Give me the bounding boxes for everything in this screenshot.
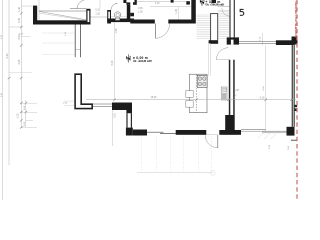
svg-text:1,40: 1,40: [17, 6, 21, 12]
dimension text left column: [5, 6, 26, 126]
svg-text:5,13: 5,13: [95, 8, 100, 11]
door arc porch: [77, 0, 87, 9]
level marker upper: [200, 0, 224, 7]
dimension line left outer: [8, 0, 10, 165]
door terrace arc: [205, 135, 218, 148]
dimension text porch top: [95, 8, 100, 15]
dimension line far left: [2, 0, 4, 200]
stove: [197, 75, 207, 87]
terrace L wall (hollow): [75, 74, 92, 108]
chimney piece C: [133, 0, 137, 5]
stair spine top black bar: [212, 0, 217, 3]
dimension connector left y72: [9, 72, 32, 74]
dimension tick group left: [8, 12, 27, 128]
wall junction block: [227, 37, 239, 44]
dimension vline right room: [265, 46, 267, 132]
wall room5 top bar right: [276, 40, 294, 45]
porch ramp diagonal: [39, 11, 86, 19]
hall guide vline: [177, 7, 179, 20]
stair door threshold: [217, 59, 229, 61]
sill hatch diagonals: [258, 133, 276, 140]
dimension line left inner: [20, 0, 22, 128]
wall living east double: [126, 113, 127, 127]
right edge dimension mark upper: [295, 105, 298, 107]
dimension vline living: [112, 110, 114, 146]
svg-text:1,20: 1,20: [95, 13, 100, 16]
svg-text:0,45: 0,45: [17, 17, 21, 23]
stair spine bottom cap: [209, 40, 218, 43]
terrace railing double line: [74, 25, 76, 58]
dimension connector top-left: [21, 5, 33, 7]
wall T pier: [225, 115, 235, 135]
window bottom (with jog): [241, 129, 266, 131]
svg-text:1,40: 1,40: [155, 2, 160, 5]
door terrace leaf: [217, 135, 219, 148]
top window line: [137, 1, 171, 3]
red boundary dashed line: [296, 0, 298, 200]
svg-text:1,15: 1,15: [16, 113, 20, 119]
svg-text:FRANCSEK UTCAI TELEKHATÁR: FRANCSEK UTCAI TELEKHATÁR: [294, 2, 297, 39]
svg-text:5,35: 5,35: [234, 89, 239, 92]
bathroom guide hline: [111, 16, 127, 18]
porch guide vline: [38, 0, 40, 20]
door hall leaf: [154, 24, 156, 39]
door terrace threshold: [206, 133, 218, 135]
extension lines bottom-left: [22, 103, 38, 105]
wall top-right corner: [292, 37, 298, 45]
wall hall bottom left piece: [130, 20, 155, 24]
L wall side extension lines: [64, 100, 74, 102]
main horizontal dimension line: [86, 99, 296, 101]
wall bathroom right: [127, 5, 131, 22]
dimension text hall: [115, 2, 178, 33]
right edge tick lower: [291, 139, 297, 141]
stair upper door arc: [222, 8, 230, 16]
sink counter: [221, 87, 227, 100]
level marker ground floor: [126, 54, 152, 63]
short hline under 0,45: [21, 35, 30, 37]
room label 5: [240, 9, 244, 15]
svg-text:3,01: 3,01: [113, 113, 116, 118]
chair B: [186, 101, 193, 108]
svg-text:15,26: 15,26: [151, 96, 158, 99]
porch guide vline2: [99, 0, 101, 9]
wall bottom bar B: [176, 130, 207, 135]
dimension texts center/right: [151, 86, 290, 151]
chair A: [186, 91, 193, 98]
wall bottom notch piece: [126, 128, 133, 136]
wall bathroom left: [107, 10, 111, 24]
wall bathroom bottom: [107, 19, 134, 23]
top jamb mark A: [171, 0, 174, 3]
terrace base line: [137, 172, 213, 174]
ticks on main hline: [113, 99, 293, 101]
wall porch bottom bar: [33, 20, 91, 24]
stair treads left flight: [197, 15, 211, 38]
wall porch right riser: [86, 9, 90, 25]
top jamb mark B: [186, 1, 190, 4]
door arc stair to kitchen: [216, 48, 228, 60]
porch opening line upper: [70, 8, 86, 10]
dimension vline room5: [261, 33, 263, 46]
wall bottom bar A: [133, 130, 147, 136]
svg-text:4,19: 4,19: [260, 97, 265, 100]
terrace end circle: [211, 171, 216, 176]
hall guide hline: [150, 6, 191, 8]
dimension connector mid-left: [9, 26, 23, 28]
wall stairwell right upper: [229, 0, 235, 37]
dimension line left small: [25, 100, 27, 127]
svg-text:5,40: 5,40: [5, 53, 9, 59]
chimney piece A: [123, 0, 126, 3]
wall kitchen west (double line): [229, 60, 231, 115]
wall living north block: [112, 103, 132, 114]
svg-text:0,45: 0,45: [1, 34, 3, 39]
tick 5,35: [234, 95, 237, 98]
door arc bathroom: [111, 3, 118, 10]
toilet: [114, 12, 120, 18]
terrace faint paving lines: [42, 33, 75, 55]
stair spine wall: [211, 14, 218, 44]
stair treads right flight: [218, 13, 230, 38]
dimension vline center: [114, 22, 116, 100]
chimney piece B: [126, 2, 130, 4]
window living north: [93, 103, 112, 105]
wall hall right: [191, 0, 196, 20]
door hall arc: [155, 24, 169, 39]
terrace dotted verticals: [142, 136, 212, 173]
svg-text:1,00: 1,00: [175, 9, 178, 14]
svg-text:Ük: +293,80 mBf: Ük: +293,80 mBf: [133, 60, 152, 63]
wall bottom bar C: [219, 130, 241, 135]
svg-text:2,45: 2,45: [17, 59, 21, 65]
window room5 top: [239, 41, 276, 43]
svg-text:1,36: 1,36: [138, 10, 143, 13]
kitchen island: [190, 74, 208, 113]
stair landing lines: [218, 5, 230, 7]
svg-text:5,40: 5,40: [110, 60, 114, 66]
svg-text:5,40: 5,40: [1, 92, 3, 97]
island dashed centerline: [196, 74, 198, 113]
svg-text:1,05: 1,05: [115, 28, 118, 33]
under-stair guide band: [208, 43, 210, 76]
wall east (double line): [292, 45, 293, 127]
passage line porch-bathroom: [91, 16, 108, 18]
porch opening line lower: [39, 10, 86, 12]
sliding door: [147, 131, 164, 133]
wall stub right of bathroom: [130, 13, 134, 16]
wall porch left bar: [33, 6, 37, 25]
wall bottom-right corner: [287, 127, 295, 136]
wall hall bottom right piece: [168, 20, 196, 24]
